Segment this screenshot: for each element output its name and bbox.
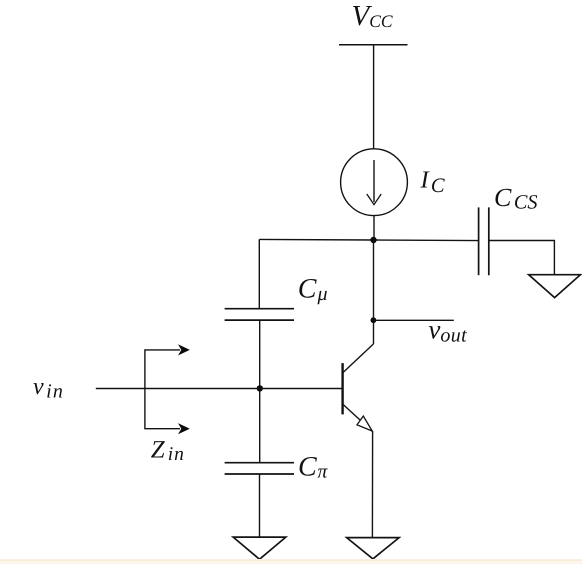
label Zin bbox=[151, 437, 185, 465]
capacitor CCS bbox=[479, 207, 489, 275]
power rail VCC bar bbox=[339, 44, 408, 46]
label vin bbox=[33, 374, 64, 403]
capacitor Cpi bbox=[225, 463, 294, 474]
wire vout bbox=[373, 319, 453, 321]
wire collector vertical bbox=[373, 240, 375, 344]
label VCC bbox=[352, 0, 393, 32]
transistor Q1 bbox=[343, 344, 374, 432]
wire left branch middle bbox=[259, 320, 261, 462]
node collector junction bbox=[370, 237, 376, 243]
wire emitter vertical bbox=[371, 432, 373, 538]
impedance Zin bracket with arrows bbox=[145, 344, 190, 434]
wire CCS to ground corner bbox=[489, 241, 555, 275]
current source IC bbox=[341, 149, 408, 216]
label Cmu bbox=[298, 274, 328, 306]
wire current source to collector node bbox=[373, 216, 375, 240]
label vout bbox=[428, 315, 467, 347]
wire left branch upper bbox=[258, 239, 260, 308]
wire VCC stem bbox=[373, 45, 375, 149]
ground (Cpi) bbox=[233, 537, 286, 559]
ground (CCS) bbox=[529, 275, 581, 298]
wire top horizontal bbox=[259, 239, 478, 240]
wire left branch lower bbox=[259, 474, 261, 537]
label CCS bbox=[494, 183, 538, 214]
node vout junction bbox=[371, 317, 377, 323]
node base junction bbox=[257, 385, 263, 391]
label IC bbox=[420, 167, 445, 197]
capacitor Cmu bbox=[225, 309, 294, 320]
ground (emitter) bbox=[347, 538, 399, 559]
wire input horizontal bbox=[96, 388, 343, 390]
label Cpi bbox=[298, 452, 328, 483]
